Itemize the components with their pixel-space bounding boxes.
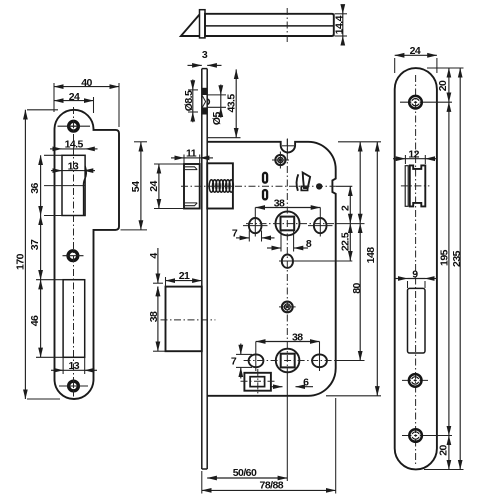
- svg-text:38: 38: [292, 331, 303, 343]
- svg-text:2: 2: [340, 205, 352, 211]
- svg-text:Ø8.5: Ø8.5: [183, 90, 195, 111]
- svg-text:50/60: 50/60: [233, 467, 257, 479]
- svg-text:Ø5: Ø5: [211, 112, 223, 126]
- svg-text:13: 13: [69, 360, 80, 372]
- svg-text:170: 170: [15, 253, 27, 270]
- svg-text:20: 20: [438, 445, 450, 456]
- svg-text:24: 24: [69, 91, 80, 103]
- svg-text:235: 235: [451, 250, 463, 267]
- svg-text:3: 3: [202, 49, 208, 61]
- svg-text:40: 40: [81, 77, 92, 89]
- svg-text:148: 148: [365, 247, 377, 264]
- svg-text:12: 12: [408, 149, 419, 161]
- svg-text:78/88: 78/88: [260, 480, 284, 492]
- svg-text:8: 8: [306, 238, 312, 250]
- svg-text:22.5: 22.5: [340, 232, 352, 251]
- svg-text:54: 54: [130, 181, 142, 192]
- svg-text:38: 38: [148, 311, 160, 322]
- svg-text:4: 4: [148, 253, 160, 259]
- svg-text:7: 7: [231, 355, 237, 367]
- svg-text:43.5: 43.5: [226, 94, 238, 113]
- svg-text:13: 13: [68, 160, 79, 172]
- svg-text:80: 80: [351, 283, 363, 294]
- svg-text:14.4: 14.4: [333, 15, 345, 34]
- svg-text:38: 38: [274, 197, 285, 209]
- svg-text:9: 9: [412, 268, 418, 280]
- svg-text:24: 24: [410, 45, 421, 57]
- svg-text:11: 11: [186, 148, 197, 160]
- svg-text:46: 46: [29, 315, 41, 326]
- svg-text:37: 37: [29, 239, 41, 250]
- svg-text:14.5: 14.5: [65, 138, 84, 150]
- svg-text:7: 7: [232, 228, 238, 240]
- svg-text:20: 20: [437, 80, 449, 91]
- svg-text:21: 21: [179, 270, 190, 282]
- svg-text:24: 24: [148, 181, 160, 192]
- svg-text:6: 6: [303, 376, 309, 388]
- svg-text:36: 36: [29, 183, 41, 194]
- svg-text:195: 195: [439, 249, 451, 266]
